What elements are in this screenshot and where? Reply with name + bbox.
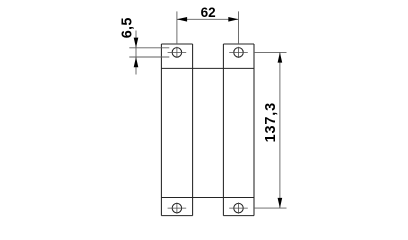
hole bottom-left circle <box>172 203 182 213</box>
dim 137,3 extension line top <box>254 51 287 53</box>
svg-text:137,3: 137,3 <box>263 102 279 142</box>
dim 62 dimension line <box>177 18 239 20</box>
dim 6,5 arrow up <box>134 57 139 67</box>
hole top-left circle <box>172 48 182 58</box>
top shoulder line <box>161 67 254 69</box>
dim 62 extension line right <box>238 11 240 44</box>
left rail outline <box>161 44 192 216</box>
svg-text:62: 62 <box>201 5 216 20</box>
dim 137,3 arrow down <box>278 198 283 208</box>
dim 6,5 extension line upper <box>129 47 169 49</box>
hole bottom-right crosshair <box>229 203 248 214</box>
dim 6,5 extension line lower <box>129 56 169 58</box>
hole bottom-right circle <box>234 203 244 213</box>
dim 6,5 dimension line <box>135 31 137 75</box>
dim 62 arrow left <box>177 17 187 22</box>
right rail outline <box>223 44 254 216</box>
dim 137,3 extension line bottom <box>254 207 287 209</box>
dim 137,3 dimension line <box>279 52 281 208</box>
svg-text:6,5: 6,5 <box>120 17 136 38</box>
dim 62 arrow right <box>228 17 238 22</box>
hole top-right circle <box>234 48 244 58</box>
dim 62 extension line left <box>176 11 178 44</box>
dim 6,5 arrow down <box>134 38 139 48</box>
hole top-right crosshair <box>229 47 248 58</box>
hole bottom-left crosshair <box>168 203 187 214</box>
hole top-left crosshair <box>168 47 187 58</box>
dim 137,3 arrow up <box>278 52 283 62</box>
bottom shoulder line <box>161 197 254 199</box>
